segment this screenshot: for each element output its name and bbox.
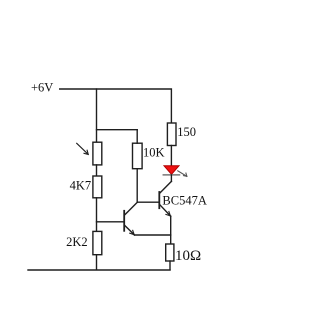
- svg-text:BC547A: BC547A: [162, 194, 206, 208]
- svg-text:2K2: 2K2: [66, 235, 88, 249]
- svg-text:10Ω: 10Ω: [175, 248, 201, 264]
- svg-text:+6V: +6V: [31, 80, 53, 94]
- svg-text:150: 150: [177, 125, 196, 139]
- svg-text:4K7: 4K7: [70, 179, 92, 193]
- svg-text:10K: 10K: [143, 146, 165, 160]
